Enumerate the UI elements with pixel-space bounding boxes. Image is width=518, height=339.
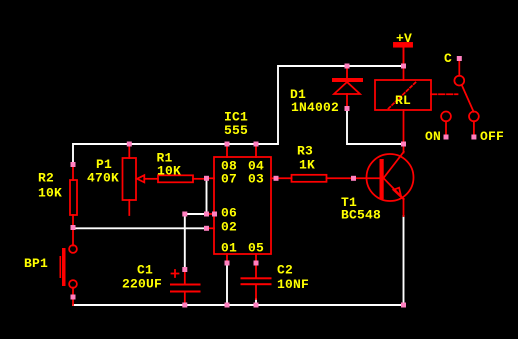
svg-text:06: 06: [221, 206, 237, 221]
potentiometer P1: [123, 144, 159, 215]
resistor R1: [158, 175, 207, 182]
relay RL: [375, 66, 431, 144]
wire ground rail: [73, 304, 404, 306]
svg-text:R2: R2: [38, 171, 54, 186]
junction node ON: [444, 135, 449, 140]
wire pin7 to pin6: [206, 180, 208, 215]
power +V symbol: [394, 43, 412, 66]
junction node diode top: [345, 64, 350, 69]
pin 2 stub: [207, 227, 215, 229]
wire pin1 to ground rail: [226, 263, 228, 305]
svg-text:1N4002: 1N4002: [291, 100, 339, 115]
wire top rail: R2 top to +V junction: [73, 66, 404, 165]
junction node pin6: [204, 212, 209, 217]
junction node base: [351, 176, 356, 181]
svg-text:03: 03: [248, 172, 264, 187]
pin 6 stub: [207, 213, 215, 215]
junction node emitter ground: [401, 303, 406, 308]
junction node switch C: [457, 56, 462, 61]
svg-text:R3: R3: [297, 144, 313, 159]
transistor T1: [367, 144, 414, 216]
capacitor C1: [170, 270, 201, 306]
wire pin6 to C1 top: [185, 214, 207, 270]
svg-text:10K: 10K: [38, 186, 62, 201]
pin 8 stub: [226, 144, 228, 157]
svg-text:05: 05: [248, 241, 264, 256]
junction node pin8: [225, 142, 230, 147]
svg-text:220UF: 220UF: [122, 277, 162, 292]
junction node pin1: [225, 261, 230, 266]
svg-text:C: C: [444, 51, 452, 66]
svg-text:ON: ON: [425, 129, 441, 144]
junction node R2 bottom / BP1: [71, 225, 76, 230]
junction node C1 top: [182, 267, 187, 272]
svg-text:C2: C2: [277, 263, 293, 278]
svg-text:BC548: BC548: [341, 208, 381, 223]
wire diode anode to collector node: [347, 109, 404, 144]
junction node pin1 ground: [225, 303, 230, 308]
push button BP1: [60, 228, 77, 306]
junction node collector: [401, 142, 406, 147]
pin 5 stub: [255, 254, 257, 263]
junction node pin7: [204, 176, 209, 181]
svg-text:10NF: 10NF: [277, 277, 309, 292]
junction node pin5: [254, 261, 259, 266]
wire C2 bottom stub: [255, 299, 257, 305]
junction node +V: [401, 64, 406, 69]
svg-text:470K: 470K: [87, 171, 119, 186]
junction node diode anode: [345, 106, 350, 111]
capacitor C2: [241, 263, 272, 299]
svg-text:10K: 10K: [157, 164, 181, 179]
junction node P1 top: [127, 142, 132, 147]
svg-text:OFF: OFF: [480, 129, 504, 144]
junction node C1 corner: [182, 212, 187, 217]
svg-text:+V: +V: [396, 31, 412, 46]
pin 7 stub: [207, 177, 215, 179]
switch C (SPDT): [441, 61, 479, 135]
junction node pin2: [204, 226, 209, 231]
wire emitter to ground rail: [403, 216, 405, 305]
junction node C2 ground: [254, 303, 259, 308]
svg-text:555: 555: [224, 123, 248, 138]
svg-text:02: 02: [221, 220, 237, 235]
pin 3 stub: [271, 177, 276, 179]
junction node OFF: [471, 135, 476, 140]
wire pin2 to R2/BP1 node: [73, 227, 207, 229]
svg-text:RL: RL: [395, 93, 411, 108]
svg-text:1K: 1K: [299, 158, 315, 173]
svg-text:C1: C1: [137, 263, 153, 278]
svg-text:BP1: BP1: [24, 256, 48, 271]
resistor R2: [70, 165, 77, 228]
diode D1: [332, 66, 363, 109]
svg-text:07: 07: [221, 172, 237, 187]
junction node pin4: [254, 142, 259, 147]
junction node R2 top: [71, 162, 76, 167]
pin 1 stub: [226, 254, 228, 263]
junction node C1 ground: [182, 303, 187, 308]
IC IC1 555: [207, 144, 277, 263]
relay link dashed: [431, 93, 458, 95]
junction node BP1 bottom: [71, 295, 76, 300]
pin 4 stub: [255, 144, 257, 157]
svg-text:01: 01: [221, 241, 237, 256]
junction node pin3: [274, 176, 279, 181]
resistor R3: [276, 175, 380, 182]
junction node pin6 box edge: [212, 212, 217, 217]
